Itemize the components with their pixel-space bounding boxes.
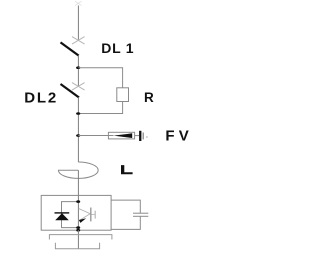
- thyristor V gate electrode: [94, 211, 96, 219]
- wire R branch bottom: [78, 102, 122, 114]
- wire arrester to gap: [135, 135, 139, 137]
- node junction top of R branch: [76, 66, 80, 69]
- breaker DL1 contact cross: [72, 37, 85, 45]
- capacitor C bottom plate: [133, 215, 148, 217]
- capacitor C top plate: [133, 212, 148, 214]
- node junction diode loop bottom: [76, 226, 80, 229]
- wire rectifier internal bus: [77, 195, 79, 230]
- svg-text:FV: FV: [165, 127, 193, 144]
- thyristor V gate lead: [92, 213, 96, 215]
- svg-text:DL 1: DL 1: [101, 40, 134, 56]
- svg-text:DL2: DL2: [24, 89, 58, 106]
- arrester gap second electrode: [143, 133, 145, 140]
- label L: [121, 165, 133, 174]
- wire incoming feeder: [77, 6, 79, 40]
- arrester gap electrode plate: [139, 131, 141, 141]
- reactor L coil: [58, 162, 98, 178]
- breaker DL2 contact cross: [72, 83, 85, 91]
- arrester FV body: [108, 132, 134, 139]
- wire R branch top: [78, 68, 122, 88]
- wire rectifier to rails: [77, 230, 79, 249]
- arrester gap tip mark: [146, 136, 147, 138]
- node junction diode loop top: [76, 200, 80, 203]
- node supply break mark: [75, 1, 82, 5]
- diode VD body: [55, 213, 69, 220]
- breaker DL2 blade: [61, 84, 80, 98]
- rectifier unit enclosure: [41, 195, 111, 230]
- breaker DL1 blade: [61, 42, 79, 55]
- wire capacitor branch top: [111, 200, 140, 213]
- wire below DL2: [77, 97, 79, 162]
- wire bypass diode loop: [62, 202, 79, 228]
- node junction bottom of R branch: [76, 112, 80, 115]
- rail bus bar: [49, 235, 112, 240]
- rail return collector: [55, 243, 99, 249]
- wire below DL1: [77, 55, 79, 86]
- wire capacitor branch bottom: [111, 216, 140, 229]
- wire FV branch: [78, 135, 113, 137]
- node junction FV branch: [76, 134, 80, 137]
- node junction rectifier output: [76, 229, 80, 232]
- diode VD cathode bar: [55, 212, 70, 214]
- thyristor V anode triangle: [79, 209, 91, 221]
- svg-text:R: R: [144, 90, 154, 105]
- igniter arrow: [79, 218, 86, 223]
- wire reactor to rectifier: [77, 170, 79, 195]
- arrester FV arrow: [114, 133, 133, 138]
- resistor R body: [117, 88, 129, 102]
- thyristor V cathode bar: [90, 208, 92, 222]
